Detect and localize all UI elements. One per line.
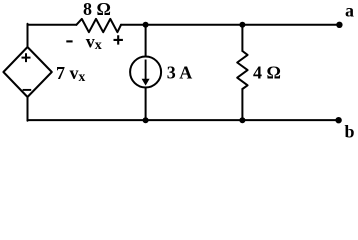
svg-text:4 Ω: 4 Ω <box>253 62 281 82</box>
wire top left segment <box>3 19 339 121</box>
wire current source top vertical <box>145 25 147 57</box>
node terminal b dot <box>335 117 341 123</box>
node junction dot at top of 4-ohm resistor <box>239 22 245 28</box>
node junction dot at bottom of 4-ohm resistor <box>239 117 245 123</box>
wire bottom left vertical from diamond to bottom wire <box>27 97 29 121</box>
wire top: left vertical from top wire to diamond <box>27 24 29 47</box>
resistor R2 4-ohm zigzag <box>237 51 247 89</box>
wire 4-ohm bottom vertical <box>241 89 243 120</box>
current source I1 circle <box>130 57 161 88</box>
node junction dot at top of current source <box>143 22 149 28</box>
svg-text:a: a <box>345 0 354 20</box>
dependent source minus sign <box>23 89 32 91</box>
svg-text:8 Ω: 8 Ω <box>83 0 111 19</box>
dependent source U1 diamond <box>3 47 51 97</box>
wire top horizontal from resistor to terminal a <box>121 24 339 26</box>
svg-text:3 A: 3 A <box>167 62 193 82</box>
wire 4-ohm top vertical <box>241 25 243 51</box>
current source I1 arrow <box>142 60 150 86</box>
label plus sign of vx <box>114 35 123 44</box>
wire top horizontal from left corner to resistor R1 <box>28 24 77 26</box>
wire current source bottom vertical <box>145 88 147 121</box>
dependent source plus sign <box>22 53 31 62</box>
node terminal a dot <box>336 22 342 28</box>
node junction dot at bottom of current source <box>143 117 149 123</box>
resistor R1 8-ohm zigzag <box>76 19 121 32</box>
wire bottom horizontal <box>28 119 339 121</box>
svg-text:vx: vx <box>86 32 102 54</box>
svg-text:b: b <box>345 121 355 139</box>
label minus sign of vx <box>66 40 72 42</box>
svg-text:7 vx: 7 vx <box>56 63 86 84</box>
